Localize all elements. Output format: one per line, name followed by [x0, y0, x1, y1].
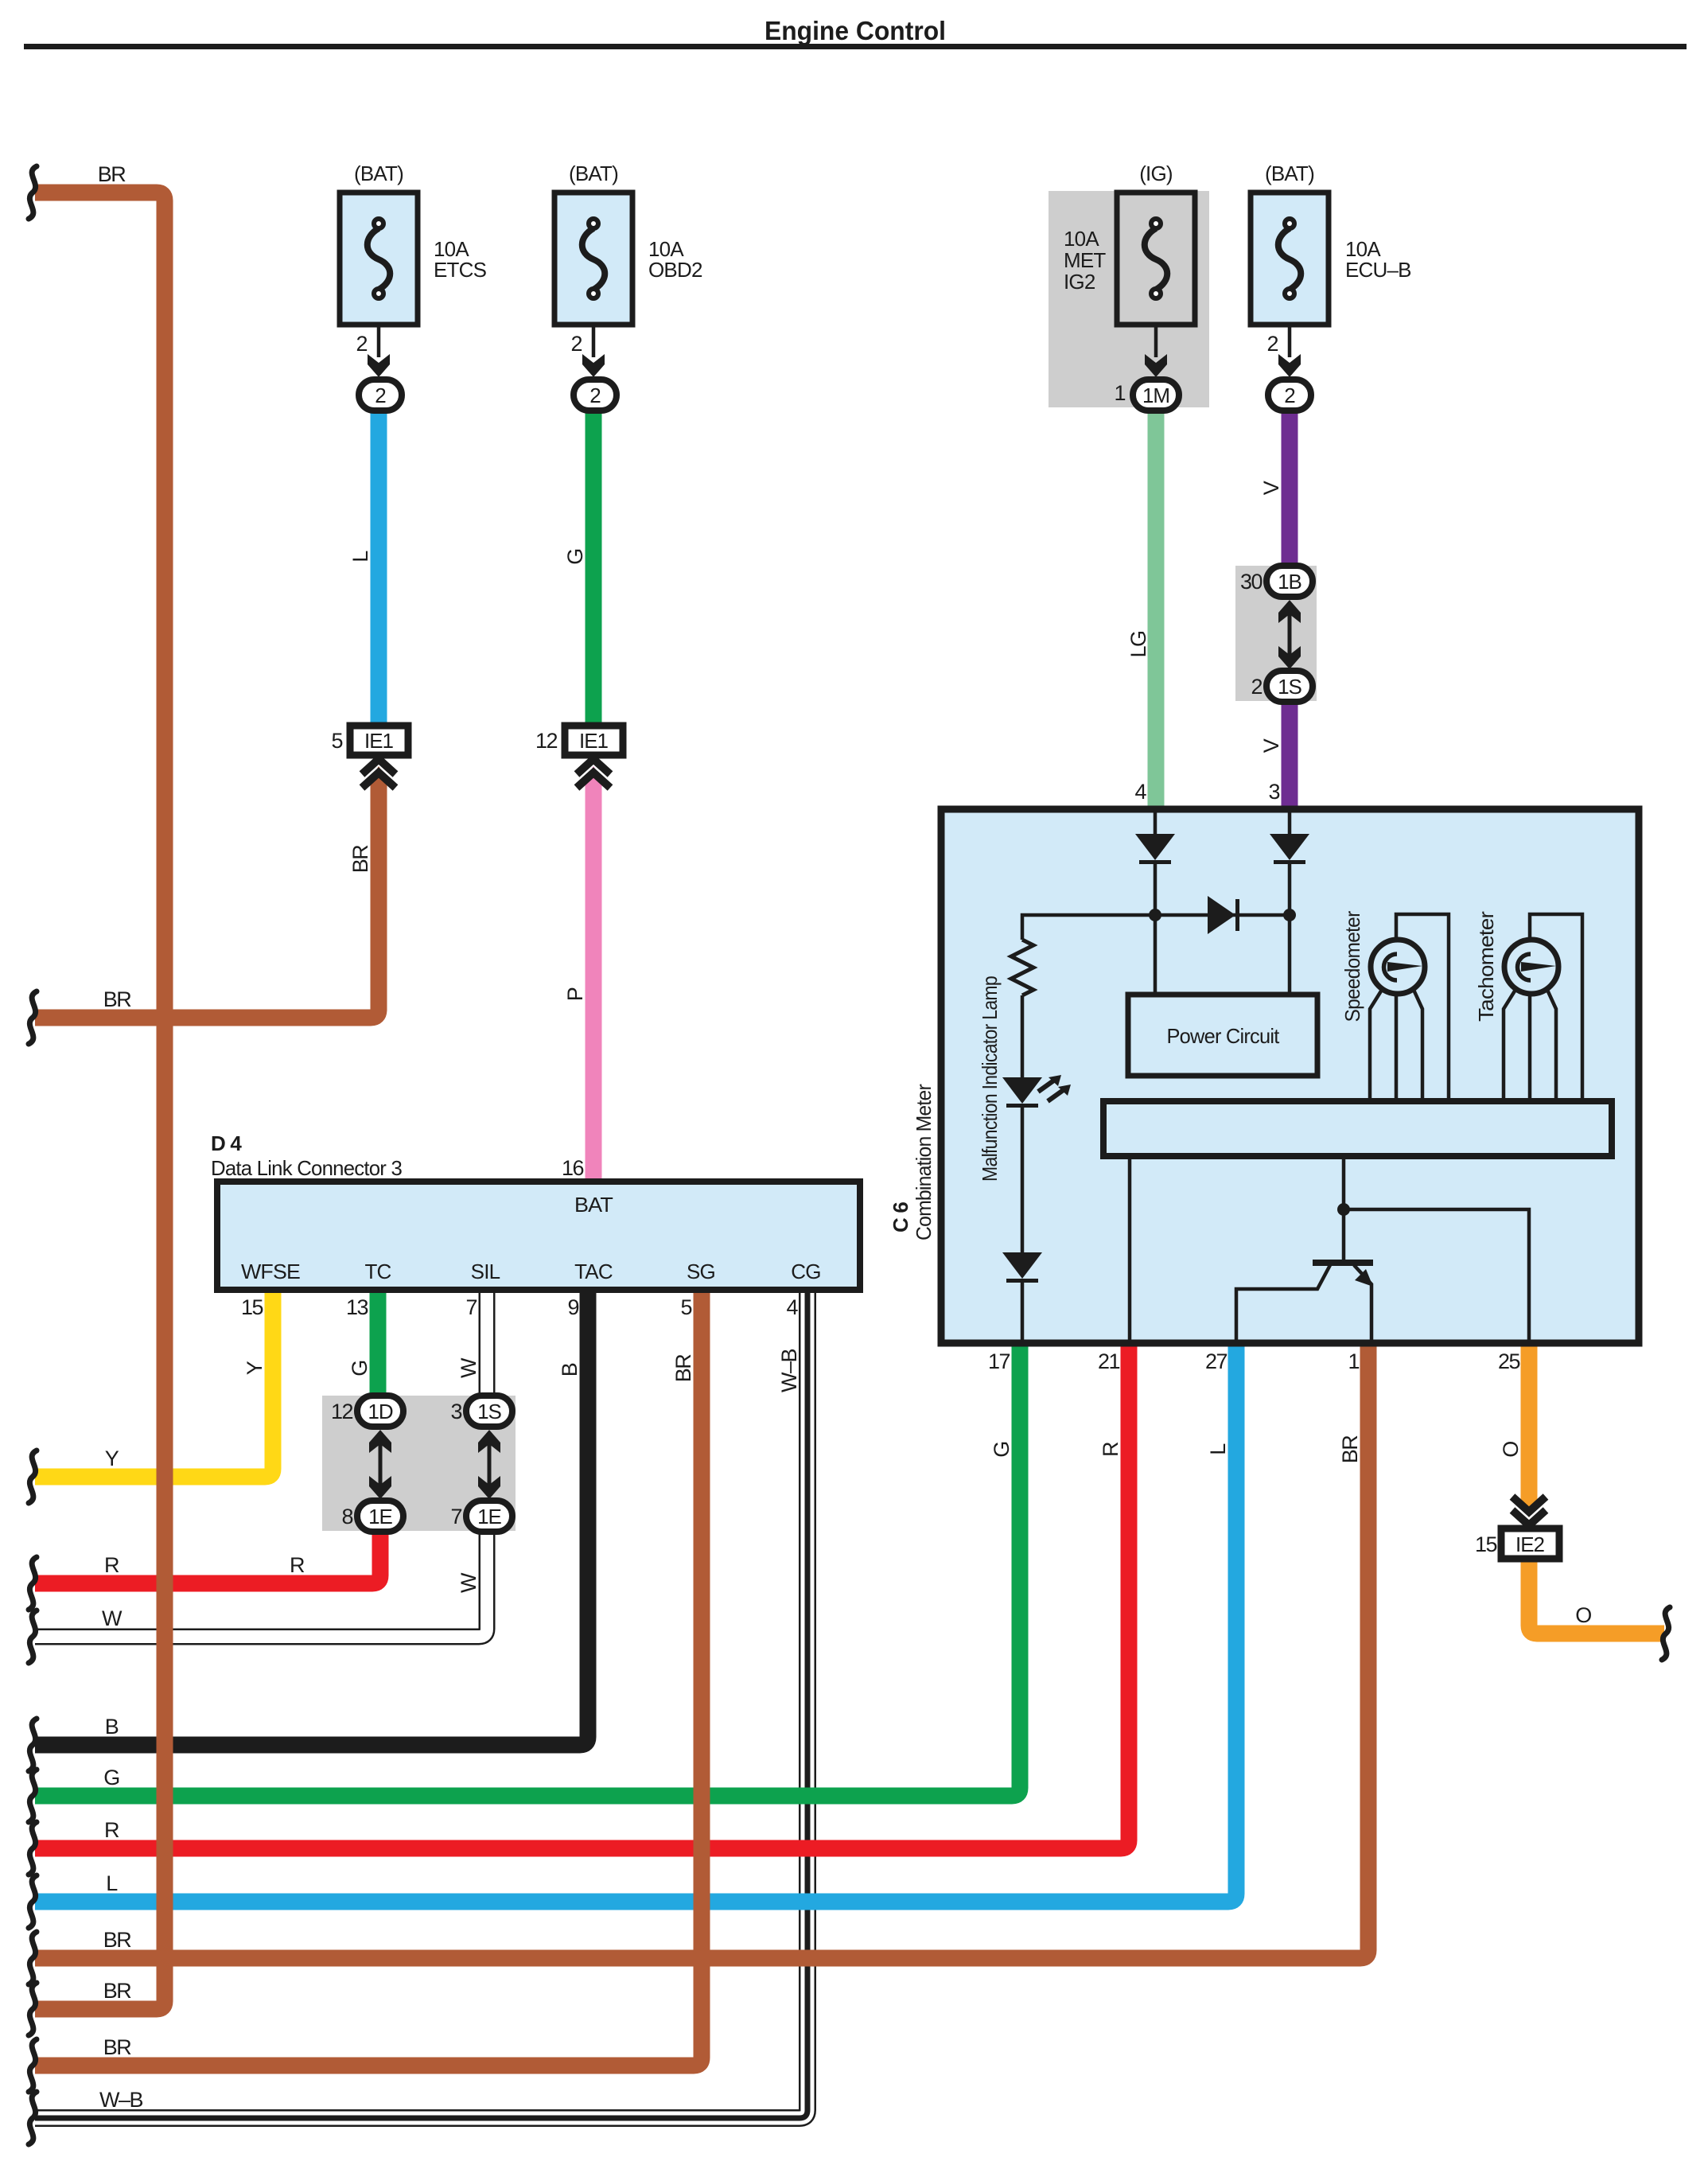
svg-text:BR: BR — [103, 1979, 132, 2003]
break BR SG — [29, 2039, 37, 2092]
svg-text:2: 2 — [375, 384, 386, 407]
power circuit box — [1128, 995, 1317, 1076]
svg-text:2: 2 — [356, 332, 367, 356]
lead diode to power circuit — [1154, 862, 1157, 995]
svg-text:SIL: SIL — [471, 1260, 500, 1283]
svg-text:O: O — [1499, 1442, 1523, 1458]
double chevron up — [362, 759, 395, 788]
tachometer right leg — [1547, 990, 1556, 1101]
svg-text:LG: LG — [1126, 631, 1150, 657]
svg-text:BR: BR — [98, 162, 126, 186]
svg-text:L: L — [348, 551, 372, 563]
wire LG (fuse MET IG2 to meter pin 4) — [1148, 407, 1165, 806]
connector oval 1S — [466, 1396, 512, 1427]
fuse box — [1251, 193, 1329, 325]
lead bus to transistor — [1342, 1156, 1346, 1260]
svg-text:16: 16 — [562, 1156, 584, 1180]
break R21 — [29, 1822, 37, 1875]
junction arrow — [368, 354, 390, 377]
speedometer gauge — [1371, 940, 1425, 994]
wire BR (meter pin 1 to left break) — [35, 1343, 1368, 1958]
speedometer loop — [1396, 914, 1449, 1101]
svg-text:Y: Y — [105, 1447, 119, 1470]
break W — [29, 1610, 37, 1663]
break BR top — [29, 166, 37, 219]
junction arrow — [1145, 354, 1167, 377]
svg-text:IG2: IG2 — [1064, 270, 1095, 294]
svg-text:7: 7 — [465, 1295, 477, 1319]
svg-text:WFSE: WFSE — [241, 1260, 300, 1283]
connector oval 2 — [1268, 380, 1311, 411]
connector oval 1E — [466, 1501, 512, 1532]
break R — [29, 1557, 37, 1610]
junction arrow up below 1S — [478, 1430, 500, 1453]
break W-B — [29, 2092, 37, 2144]
connector IE1 pin 12 — [565, 726, 623, 755]
svg-text:CG: CG — [791, 1260, 820, 1283]
svg-text:2: 2 — [1251, 675, 1262, 699]
wire BR (SG to left break) — [35, 1290, 702, 2066]
svg-text:5: 5 — [331, 729, 342, 753]
svg-text:2: 2 — [570, 332, 582, 356]
svg-text:Y: Y — [243, 1361, 267, 1375]
svg-text:1B: 1B — [1278, 570, 1301, 594]
connector oval 2 — [359, 380, 402, 411]
fuse box — [554, 193, 632, 325]
connecting line — [379, 1432, 383, 1494]
svg-text:Malfunction Indicator Lamp: Malfunction Indicator Lamp — [978, 976, 1002, 1182]
svg-text:BAT: BAT — [574, 1193, 613, 1217]
break G — [29, 1770, 37, 1822]
svg-text:2: 2 — [589, 384, 601, 407]
diode to pin 17 lead — [1021, 1282, 1025, 1343]
double chevron up — [577, 759, 610, 788]
svg-text:12: 12 — [535, 729, 558, 753]
break O right — [1662, 1607, 1670, 1660]
svg-text:13: 13 — [346, 1295, 368, 1319]
connector IE1 pin 5 — [350, 726, 408, 755]
svg-text:R: R — [104, 1818, 119, 1842]
wire V (1S pin 2 to meter pin 3) — [1282, 699, 1298, 806]
svg-text:4: 4 — [786, 1295, 798, 1319]
connector oval 1M — [1133, 380, 1179, 411]
wire P (IE1 pin 12 to DLC3 BAT pin 16) — [586, 778, 602, 1183]
meter box — [941, 809, 1639, 1343]
fuse MET lead — [1154, 325, 1158, 357]
svg-text:1M: 1M — [1142, 384, 1169, 407]
wire R (meter pin 21 to left break) — [35, 1343, 1129, 1848]
connecting line — [488, 1432, 492, 1494]
svg-text:1D: 1D — [368, 1400, 392, 1423]
svg-text:9: 9 — [567, 1295, 578, 1319]
tachometer gauge — [1504, 940, 1558, 994]
svg-text:Speedometer: Speedometer — [1340, 910, 1364, 1022]
junction arrow down above 1E — [478, 1476, 500, 1499]
fuse lead — [1288, 325, 1292, 357]
svg-text:G: G — [990, 1442, 1014, 1458]
svg-text:1S: 1S — [477, 1400, 501, 1423]
svg-text:BR: BR — [103, 987, 132, 1011]
lead junction to pin 25 — [1344, 1209, 1529, 1343]
svg-text:BR: BR — [348, 845, 372, 874]
svg-text:12: 12 — [331, 1400, 353, 1423]
svg-text:C 6: C 6 — [889, 1202, 912, 1232]
svg-text:3: 3 — [450, 1400, 461, 1423]
svg-text:L: L — [1206, 1443, 1230, 1455]
svg-text:B: B — [105, 1715, 119, 1739]
svg-text:SG: SG — [687, 1260, 715, 1283]
break BR IE1 — [29, 991, 37, 1044]
lead pin3 to diode — [1288, 809, 1292, 834]
svg-text:MET: MET — [1064, 248, 1106, 272]
svg-text:TC: TC — [364, 1260, 391, 1283]
fuse MET box — [1117, 193, 1195, 325]
tachometer left leg — [1504, 990, 1515, 1101]
svg-text:7: 7 — [450, 1505, 461, 1528]
svg-text:8: 8 — [341, 1505, 352, 1528]
wire W-B (CG to left break) — [35, 1290, 807, 2118]
wire G (meter pin 17 to left break) — [35, 1343, 1020, 1796]
gray block 1B/1S — [1235, 566, 1317, 701]
wire R (1E pin 8 to left break) — [35, 1531, 380, 1583]
svg-text:10A: 10A — [1064, 227, 1099, 251]
junction arrow down above 1E — [369, 1476, 391, 1499]
svg-text:TAC: TAC — [574, 1260, 613, 1283]
break BR1 — [29, 1932, 37, 1984]
fuse element — [582, 219, 605, 298]
LED to diode lead — [1021, 1107, 1025, 1252]
svg-text:P: P — [563, 987, 587, 1001]
wire BR (main trunk, top break to bottom break) — [35, 193, 165, 2009]
break BR trunk — [29, 1983, 37, 2035]
junction arrow — [582, 354, 605, 377]
svg-text:1S: 1S — [1278, 675, 1301, 699]
speedometer right leg — [1414, 990, 1422, 1101]
svg-text:W: W — [457, 1572, 480, 1593]
break L — [29, 1875, 37, 1928]
break B — [29, 1719, 37, 1771]
svg-text:1: 1 — [1114, 381, 1125, 405]
svg-text:27: 27 — [1205, 1349, 1228, 1373]
diode (MIL chain lower) — [1002, 1252, 1042, 1283]
junction dot left — [1149, 909, 1161, 921]
wire G (D4 TC to 1D pin 12) — [370, 1290, 387, 1400]
fuse MET element — [1145, 219, 1168, 298]
svg-text:Combination Meter: Combination Meter — [912, 1084, 936, 1240]
transistor base bar — [1313, 1260, 1373, 1266]
title rule — [24, 44, 1687, 49]
wire O (meter pin 25 to right break) — [1521, 1343, 1538, 1505]
svg-text:2: 2 — [1266, 332, 1278, 356]
double chevron down — [1512, 1497, 1546, 1525]
svg-text:ECU–B: ECU–B — [1345, 258, 1411, 282]
svg-text:G: G — [103, 1766, 119, 1789]
svg-text:O: O — [1575, 1603, 1591, 1627]
svg-text:21: 21 — [1098, 1349, 1120, 1373]
tachometer loop — [1530, 914, 1582, 1101]
wire L (fuse ETCS to IE1) — [371, 408, 387, 726]
wire L (meter pin 27 to left break) — [35, 1343, 1236, 1902]
junction arrow up below 1D — [369, 1430, 391, 1453]
svg-text:Tachometer: Tachometer — [1474, 911, 1498, 1022]
connector IE2 box — [1501, 1528, 1559, 1559]
svg-text:15: 15 — [241, 1295, 263, 1319]
svg-text:3: 3 — [1268, 780, 1279, 804]
svg-text:R: R — [104, 1553, 119, 1577]
fuse box — [340, 193, 418, 325]
connector oval 1E — [357, 1501, 403, 1532]
lead diode to power circuit — [1288, 862, 1292, 995]
svg-text:1E: 1E — [477, 1505, 501, 1528]
svg-text:IE1: IE1 — [579, 729, 609, 753]
junction arrow up below 1B — [1278, 600, 1301, 623]
svg-text:BR: BR — [1338, 1435, 1362, 1464]
bus bar — [1103, 1101, 1612, 1156]
svg-text:W: W — [102, 1606, 123, 1630]
break Y — [29, 1451, 37, 1503]
transistor collector to pin 27 — [1236, 1265, 1330, 1343]
svg-text:17: 17 — [988, 1349, 1010, 1373]
svg-text:R: R — [1099, 1442, 1122, 1457]
svg-text:G: G — [563, 549, 587, 565]
svg-text:BR: BR — [103, 1928, 132, 1952]
horizontal rail — [1022, 915, 1290, 940]
svg-text:V: V — [1259, 481, 1283, 495]
connector oval 1B — [1266, 566, 1313, 597]
transistor emitter arrowhead — [1355, 1269, 1373, 1287]
connector oval 1S — [1266, 671, 1313, 702]
fuse element — [1278, 219, 1301, 298]
connector oval 1D — [357, 1396, 403, 1427]
svg-text:W: W — [457, 1357, 480, 1378]
D4 box — [217, 1182, 860, 1290]
svg-text:G: G — [348, 1361, 372, 1377]
svg-text:IE1: IE1 — [364, 729, 394, 753]
svg-text:4: 4 — [1134, 780, 1146, 804]
wire W-B black stripe — [35, 1290, 807, 2118]
junction arrow — [1278, 354, 1301, 377]
svg-text:(BAT): (BAT) — [1265, 162, 1314, 185]
connecting line — [1288, 605, 1292, 664]
junction arrow down above 1S — [1278, 646, 1301, 669]
fuse lead — [592, 325, 596, 357]
fuse lead — [377, 325, 381, 357]
svg-text:15: 15 — [1475, 1532, 1497, 1556]
connector oval 2 — [574, 380, 617, 411]
svg-text:B: B — [558, 1363, 582, 1377]
svg-text:BR: BR — [103, 2035, 132, 2059]
svg-text:OBD2: OBD2 — [648, 258, 702, 282]
wire W (SIL to left break) — [35, 1290, 487, 1637]
svg-text:(BAT): (BAT) — [569, 162, 618, 185]
resistor to LED lead — [1021, 995, 1025, 1077]
wire BR (IE1 pin 5 to left break) — [35, 778, 379, 1018]
junction dot right — [1283, 909, 1296, 921]
svg-text:Data Link Connector 3: Data Link Connector 3 — [211, 1156, 402, 1180]
svg-text:ETCS: ETCS — [434, 258, 487, 282]
wire B (TAC to left break) — [35, 1290, 588, 1745]
svg-text:D 4: D 4 — [211, 1131, 242, 1155]
svg-text:W–B: W–B — [777, 1349, 801, 1393]
lead pin4 to diode — [1154, 809, 1157, 834]
LED malfunction indicator lamp — [1002, 1075, 1071, 1108]
svg-text:W–B: W–B — [99, 2088, 143, 2112]
diode (pin 4 input) — [1135, 834, 1175, 864]
diode (horizontal) — [1208, 896, 1239, 934]
svg-text:BR: BR — [671, 1354, 695, 1383]
svg-text:1: 1 — [1348, 1349, 1359, 1373]
fuse element — [368, 219, 391, 298]
svg-text:30: 30 — [1240, 570, 1263, 594]
svg-text:(IG): (IG) — [1139, 162, 1173, 185]
gray block MET — [1049, 191, 1209, 407]
speedometer left leg — [1370, 990, 1382, 1101]
svg-text:25: 25 — [1498, 1349, 1520, 1373]
gray block — [322, 1396, 516, 1531]
wire G (fuse OBD2 to IE1) — [586, 408, 602, 726]
transistor emitter to pin 1 — [1354, 1265, 1371, 1343]
svg-text:1E: 1E — [368, 1505, 392, 1528]
wire Y (WFSE to left break) — [35, 1290, 273, 1477]
svg-text:R: R — [290, 1553, 305, 1577]
resistor — [1011, 940, 1033, 995]
transistor junction dot — [1337, 1203, 1350, 1216]
diode (pin 3 input) — [1270, 834, 1309, 864]
svg-text:V: V — [1259, 738, 1283, 753]
wire V (fuse ECU-B to 1B pin 30) — [1282, 407, 1298, 569]
svg-text:IE2: IE2 — [1515, 1532, 1545, 1556]
svg-text:Engine Control: Engine Control — [765, 16, 946, 45]
svg-text:2: 2 — [1284, 384, 1295, 407]
svg-text:(BAT): (BAT) — [354, 162, 403, 185]
svg-text:5: 5 — [680, 1295, 691, 1319]
lead bus to pin 21 — [1128, 1156, 1132, 1343]
svg-text:Power Circuit: Power Circuit — [1167, 1024, 1281, 1048]
svg-text:L: L — [106, 1871, 118, 1895]
